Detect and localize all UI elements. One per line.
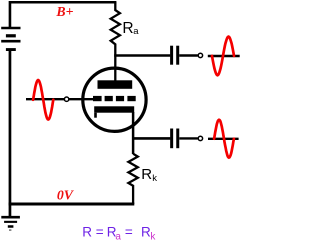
- svg-text:0V: 0V: [57, 188, 75, 203]
- svg-text:R: R: [122, 20, 133, 37]
- svg-text:a: a: [133, 26, 139, 37]
- svg-text:k: k: [152, 173, 157, 184]
- svg-text:R: R: [82, 224, 92, 239]
- svg-text:=: =: [125, 224, 133, 239]
- svg-text:R: R: [141, 166, 152, 183]
- svg-text:B+: B+: [55, 4, 73, 19]
- svg-text:=: =: [96, 224, 104, 239]
- svg-text:a: a: [115, 232, 121, 243]
